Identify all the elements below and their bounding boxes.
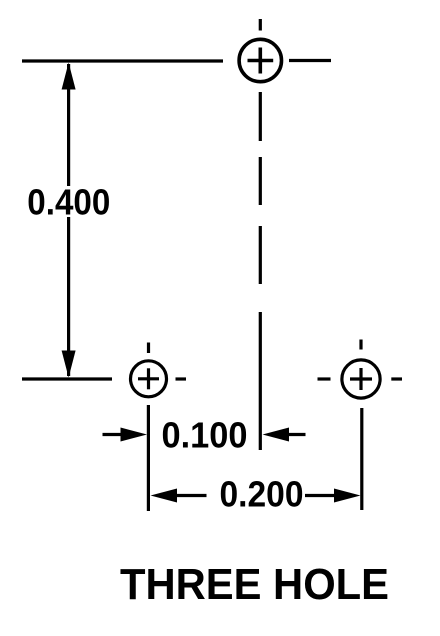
label 0.400 background xyxy=(26,186,112,217)
dim 0.100 right arrowhead (points left) xyxy=(263,428,290,442)
H3 left centerline dash xyxy=(318,377,331,380)
arrowhead down (0.400 bottom) xyxy=(62,351,76,378)
dim 0.100 right arrow shaft xyxy=(289,433,306,436)
H1 top centerline dash xyxy=(259,19,262,31)
arrowhead up (0.400 top) xyxy=(62,63,76,90)
dim 0.100 left arrowhead (points right) xyxy=(121,428,148,442)
svg-text:0.400: 0.400 xyxy=(27,182,110,223)
svg-text:0.200: 0.200 xyxy=(220,474,304,515)
svg-text:0.100: 0.100 xyxy=(162,415,248,456)
dim 0.200 left arrowhead (points left) xyxy=(151,489,178,503)
vertical center line (dashed) below H1 xyxy=(259,92,262,450)
dim 0.200 right arrowhead (points right) xyxy=(334,489,361,503)
wire: top-left extension line xyxy=(22,59,223,62)
dim 0.100 left arrow shaft xyxy=(103,433,122,436)
hole H3 (bottom right) xyxy=(342,360,380,398)
hole H1 (top) xyxy=(239,39,281,81)
dim 0.200 right arrow shaft xyxy=(305,494,335,497)
H3 bottom extension line xyxy=(360,408,363,510)
hole H2 (bottom left) xyxy=(131,361,167,397)
H2 right centerline dash xyxy=(176,377,187,380)
H3 right centerline dash xyxy=(391,377,402,380)
wire: bottom-left extension line xyxy=(22,377,112,380)
H2 top centerline dash xyxy=(147,343,150,354)
dim 0.200 left arrow shaft xyxy=(177,494,207,497)
H3 top centerline dash xyxy=(359,340,362,350)
H1 right centerline dash xyxy=(289,59,331,62)
H2 bottom extension line xyxy=(147,405,150,511)
svg-text:THREE HOLE: THREE HOLE xyxy=(120,560,389,609)
dimension line 0.400 (vertical) xyxy=(67,64,70,376)
